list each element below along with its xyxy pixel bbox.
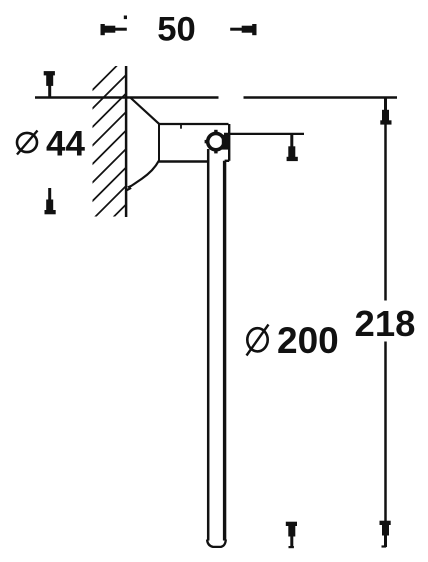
diameter symbol Ø (of 200) bbox=[247, 328, 267, 351]
svg-text:200: 200 bbox=[277, 320, 339, 361]
dimension arrow 50 right (points left at ring outer edge) bbox=[230, 24, 256, 35]
dimension arrow Ø200 bottom (points down at ring bottom) bbox=[286, 522, 297, 548]
dimension text Ø44 bbox=[17, 124, 85, 163]
rosette body top edge bbox=[159, 123, 229, 125]
escutcheon neck line bbox=[158, 124, 160, 161]
svg-text:50: 50 bbox=[157, 10, 195, 48]
ring bar bottom cap bbox=[207, 540, 226, 547]
escutcheon bell bottom edge bbox=[127, 161, 159, 191]
ring pivot circle bbox=[208, 133, 224, 149]
pivot circle nubs bbox=[214, 130, 217, 133]
svg-text:218: 218 bbox=[355, 303, 416, 344]
ring top extension line bbox=[224, 133, 304, 135]
dimension line 218 (vertical) bbox=[384, 99, 387, 523]
escutcheon bell top edge bbox=[131, 98, 159, 124]
rosette body right edge bbox=[228, 124, 230, 161]
dimension arrow Ø44 top (points down at flange top line) bbox=[44, 71, 55, 97]
ring bottom tick at Ø200 arrow tip bbox=[289, 546, 294, 548]
dimension arrow 50 left (points right at wall face) bbox=[101, 24, 127, 35]
clamp bottom jog bbox=[225, 160, 230, 162]
rosette body bottom edge bbox=[159, 160, 208, 162]
wall face line bbox=[125, 66, 128, 217]
seam tick on body top bbox=[180, 124, 182, 129]
diameter symbol Ø (of 44) bbox=[17, 133, 37, 152]
ring bar right line bbox=[223, 161, 226, 541]
ring bar left line bbox=[207, 149, 210, 541]
clamp slot (filled) bbox=[222, 135, 229, 150]
svg-text:44: 44 bbox=[46, 124, 85, 163]
dimension arrow Ø44 bottom (points up at flange bottom) bbox=[45, 188, 56, 214]
dimension arrow 218 top (points up) bbox=[380, 98, 391, 124]
top extension line (flange top / 218 top reference) bbox=[35, 96, 397, 99]
wall extension stub above 50 arrow bbox=[124, 16, 127, 20]
dimension text Ø200 bbox=[247, 320, 339, 361]
dimension arrow 218 bottom (points down) bbox=[380, 521, 391, 547]
wall hatching bbox=[89, 57, 126, 261]
bottom tick at 218 arrow tip bbox=[382, 545, 387, 547]
dimension arrow Ø200 top (points up at ring top line) bbox=[287, 135, 298, 161]
